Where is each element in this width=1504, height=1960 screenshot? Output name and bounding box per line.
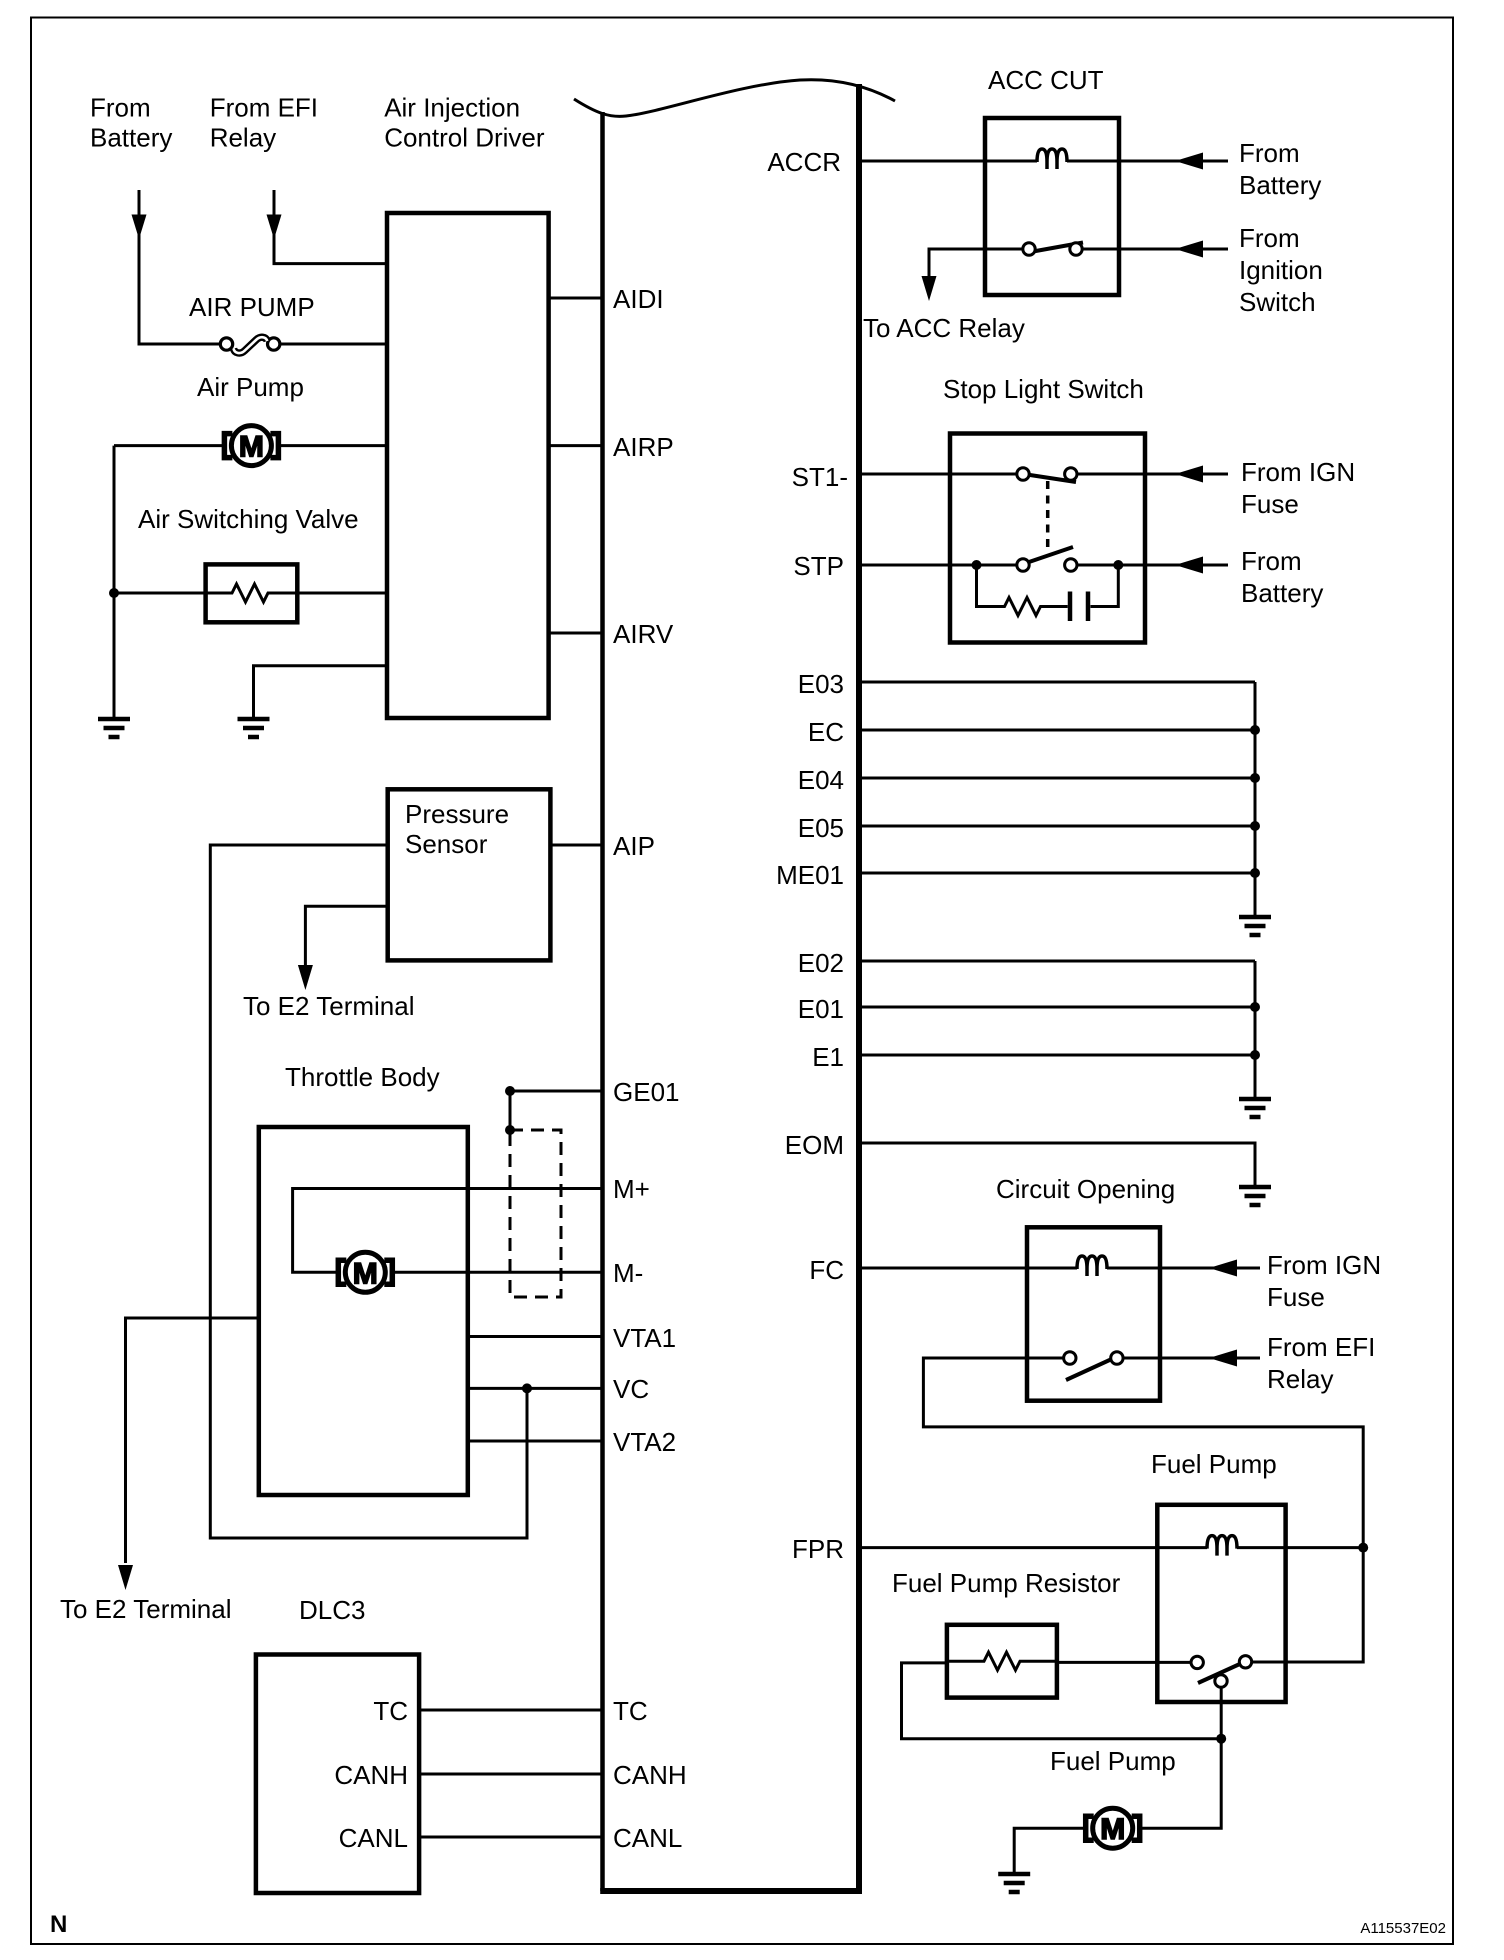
arrowhead From IGN Fuse xyxy=(1175,466,1203,483)
wire: VTA2 stub xyxy=(468,1440,603,1443)
svg-text:M: M xyxy=(239,431,264,464)
ground (air pump circuit) xyxy=(98,719,130,737)
wire: E03 xyxy=(861,681,1255,684)
ground (E03 bus) xyxy=(1239,917,1271,935)
svg-text:M: M xyxy=(1100,1813,1125,1846)
arrowhead To ACC Relay xyxy=(922,276,937,301)
junction: GE01 shield tap xyxy=(505,1086,515,1096)
wire: AIRP stub xyxy=(549,444,603,447)
wire: CANL link xyxy=(419,1836,602,1839)
wire: valve row right to driver box xyxy=(297,592,387,595)
junction: shield corner xyxy=(505,1125,515,1135)
svg-text:AIDI: AIDI xyxy=(613,284,664,314)
wire: circuit opening output loop to fuel pump relay xyxy=(923,1358,1363,1548)
svg-text:AIRV: AIRV xyxy=(613,619,674,649)
svg-text:FC: FC xyxy=(809,1255,844,1285)
svg-text:From: From xyxy=(1241,546,1302,576)
svg-text:M+: M+ xyxy=(613,1174,650,1204)
svg-text:CANL: CANL xyxy=(613,1823,682,1853)
relay coil (Fuel Pump) xyxy=(1207,1536,1237,1556)
wire: AIP stub xyxy=(550,844,602,847)
arrowhead to E2 terminal (upper) xyxy=(298,965,313,990)
svg-text:From IGN: From IGN xyxy=(1267,1250,1381,1280)
wire: M- lead xyxy=(392,1271,602,1274)
svg-text:CANL: CANL xyxy=(339,1823,408,1853)
wire: pressure sensor to E2 terminal xyxy=(305,906,387,966)
junction: fuel pump feed xyxy=(1216,1734,1226,1744)
svg-text:Fuel Pump Resistor: Fuel Pump Resistor xyxy=(892,1568,1121,1598)
wire: throttle body to E2 terminal xyxy=(126,1318,259,1563)
svg-text:Sensor: Sensor xyxy=(405,829,488,859)
svg-text:To E2 Terminal: To E2 Terminal xyxy=(60,1594,232,1624)
svg-text:Pressure: Pressure xyxy=(405,799,509,829)
resistor element (fuel pump resistor) xyxy=(947,1652,1057,1670)
junction: E01 xyxy=(1250,1002,1260,1012)
svg-text:E05: E05 xyxy=(798,813,844,843)
junction: ME01 xyxy=(1250,868,1260,878)
wire: E01 xyxy=(861,1006,1255,1009)
wire: common contact down to junction xyxy=(1220,1687,1223,1739)
relay contact (ACC CUT switch) xyxy=(985,243,1228,256)
svg-text:STP: STP xyxy=(793,551,844,581)
svg-text:To ACC Relay: To ACC Relay xyxy=(863,313,1025,343)
arrowhead From IGN Fuse (circuit opening) xyxy=(1209,1260,1237,1277)
svg-text:From IGN: From IGN xyxy=(1241,457,1355,487)
wire: ACCR to relay coil and From Battery xyxy=(861,160,1037,163)
wire: FC to coil and From IGN Fuse xyxy=(861,1267,1077,1270)
svg-text:TC: TC xyxy=(613,1696,648,1726)
junction: valve branch xyxy=(109,588,119,598)
wire: ground bus (E02-E1) xyxy=(1254,961,1257,1097)
junction: E05 xyxy=(1250,821,1260,831)
resistor element inside valve xyxy=(206,584,298,602)
svg-text:Battery: Battery xyxy=(1239,170,1321,200)
svg-text:VC: VC xyxy=(613,1374,649,1404)
ECU bottom edge xyxy=(600,1888,862,1894)
svg-text:Air Switching Valve: Air Switching Valve xyxy=(138,504,359,534)
relay box: Fuel Pump xyxy=(1157,1505,1285,1702)
svg-text:E01: E01 xyxy=(798,994,844,1024)
svg-text:ACCR: ACCR xyxy=(767,147,841,177)
wire: E02 xyxy=(861,960,1255,963)
svg-text:Circuit Opening: Circuit Opening xyxy=(996,1174,1175,1204)
wire: resistor bypass loop xyxy=(902,1663,1222,1739)
wire: VC stub xyxy=(468,1387,603,1390)
junction: EC xyxy=(1250,725,1260,735)
ground (driver box) xyxy=(238,719,270,737)
junction: VC tap xyxy=(522,1383,532,1393)
wire: RC branch right side up xyxy=(1091,565,1119,607)
wire: AIDI stub xyxy=(549,297,603,300)
svg-text:E03: E03 xyxy=(798,669,844,699)
svg-text:Fuel Pump: Fuel Pump xyxy=(1050,1746,1176,1776)
wire: FPR to coil xyxy=(861,1546,1207,1549)
svg-text:E1: E1 xyxy=(812,1042,844,1072)
relay box: ACC CUT xyxy=(985,118,1119,295)
svg-text:Stop Light Switch: Stop Light Switch xyxy=(943,374,1144,404)
ECU right boundary line xyxy=(856,84,862,1891)
wire: fuse to driver box xyxy=(281,343,388,346)
wire: ground bus (E03-ME01) xyxy=(1254,682,1257,915)
svg-text:Fuse: Fuse xyxy=(1267,1282,1325,1312)
relay coil (Circuit Opening) xyxy=(1077,1256,1107,1276)
svg-text:VTA2: VTA2 xyxy=(613,1427,676,1457)
wire: motor to ground xyxy=(1014,1828,1085,1872)
arrowhead From EFI Relay (circuit opening) xyxy=(1209,1350,1237,1367)
svg-text:CANH: CANH xyxy=(613,1760,687,1790)
ground (E02 bus) xyxy=(1239,1099,1271,1117)
arrowhead From Battery (stop light) xyxy=(1175,557,1203,574)
shield (dashed) around M+/M- wires xyxy=(510,1130,561,1297)
svg-text:VTA1: VTA1 xyxy=(613,1323,676,1353)
arrowhead on from-battery wire xyxy=(132,215,147,240)
box: Air Injection Control Driver xyxy=(387,213,549,718)
svg-text:From EFI: From EFI xyxy=(1267,1332,1375,1362)
svg-text:Air Pump: Air Pump xyxy=(197,372,304,402)
svg-text:Battery: Battery xyxy=(90,123,172,153)
ECU page-break squiggle (top) xyxy=(574,80,895,117)
resistor (stop light switch) xyxy=(977,598,1068,616)
wire: ME01 xyxy=(861,872,1255,875)
box: Throttle Body xyxy=(259,1127,468,1495)
wire: CANH link xyxy=(419,1773,602,1776)
svg-text:Air Injection: Air Injection xyxy=(384,93,520,123)
svg-text:EC: EC xyxy=(808,717,844,747)
ground (EOM) xyxy=(1239,1187,1271,1205)
relay coil (ACC CUT) xyxy=(1037,149,1067,169)
svg-text:CANH: CANH xyxy=(334,1760,408,1790)
svg-text:E02: E02 xyxy=(798,948,844,978)
wire: left drop from motor row to ground xyxy=(113,446,116,717)
svg-text:Relay: Relay xyxy=(1267,1364,1333,1394)
wire: GE01 down to shield xyxy=(509,1091,512,1130)
wire: EC xyxy=(861,729,1255,732)
svg-text:Relay: Relay xyxy=(210,123,276,153)
svg-text:ACC CUT: ACC CUT xyxy=(988,65,1104,95)
svg-text:N: N xyxy=(50,1911,67,1938)
arrowhead to E2 terminal (lower) xyxy=(118,1565,133,1590)
wire: EOM to ground xyxy=(861,1143,1255,1185)
wire: ST1- row xyxy=(861,473,1016,476)
svg-text:GE01: GE01 xyxy=(613,1077,680,1107)
svg-text:TC: TC xyxy=(373,1696,408,1726)
wire: from-EFI-relay feed into driver box xyxy=(274,190,387,264)
arrowhead From Battery xyxy=(1175,153,1203,170)
wire: air pump motor row xyxy=(114,444,226,447)
junction: E1 xyxy=(1250,1050,1260,1060)
svg-text:From EFI: From EFI xyxy=(210,93,318,123)
switch contact STP (lower) xyxy=(1017,547,1077,571)
relay box: Circuit Opening xyxy=(1027,1227,1160,1400)
svg-text:Ignition: Ignition xyxy=(1239,255,1323,285)
svg-text:Fuel Pump: Fuel Pump xyxy=(1151,1449,1277,1479)
svg-text:DLC3: DLC3 xyxy=(299,1595,365,1625)
svg-text:To E2 Terminal: To E2 Terminal xyxy=(243,991,415,1021)
svg-text:Control Driver: Control Driver xyxy=(384,123,545,153)
svg-text:From: From xyxy=(1239,223,1300,253)
junction: STP RC left xyxy=(972,560,982,570)
wire: down to fuel pump relay contact xyxy=(1252,1548,1364,1662)
svg-text:Fuse: Fuse xyxy=(1241,489,1299,519)
capacitor (stop light switch) xyxy=(1070,592,1088,622)
wire: valve row left xyxy=(114,592,206,595)
motor: throttle motor (M) xyxy=(338,1252,392,1292)
svg-text:Throttle Body: Throttle Body xyxy=(285,1062,440,1092)
svg-text:M: M xyxy=(353,1257,378,1290)
wire: to ACC relay xyxy=(929,249,985,276)
wire: STP row xyxy=(861,564,1016,567)
switch contact ST1 (upper) xyxy=(1017,468,1077,482)
svg-text:ST1-: ST1- xyxy=(792,462,848,492)
wire: GE01 stub xyxy=(510,1090,603,1093)
wire: from-battery feed down to AIR PUMP fuse xyxy=(139,190,220,344)
svg-text:From: From xyxy=(90,93,151,123)
box: Stop Light Switch xyxy=(950,434,1145,643)
arrowhead From Ignition Switch xyxy=(1175,241,1203,258)
svg-text:E04: E04 xyxy=(798,765,844,795)
box: DLC3 connector xyxy=(256,1655,419,1894)
svg-text:M-: M- xyxy=(613,1258,643,1288)
motor: Air Pump (M) xyxy=(224,426,278,466)
wire: E05 xyxy=(861,825,1255,828)
valve box (Air Switching Valve) xyxy=(206,564,298,622)
fuse AIR PUMP xyxy=(220,337,280,353)
ground (fuel pump motor) xyxy=(998,1874,1030,1892)
svg-text:AIRP: AIRP xyxy=(613,432,674,462)
junction: E04 xyxy=(1250,773,1260,783)
wire: M+ lead xyxy=(293,1189,603,1273)
wire: E1 xyxy=(861,1054,1255,1057)
relay contact (Circuit Opening switch) xyxy=(1027,1352,1260,1380)
motor: Fuel Pump (M) xyxy=(1086,1808,1140,1848)
wire: driver box ground lead xyxy=(254,666,388,717)
ganged-switch dashed link xyxy=(1046,481,1050,552)
svg-text:EOM: EOM xyxy=(785,1130,844,1160)
wire: VTA1 stub xyxy=(468,1335,603,1338)
svg-text:FPR: FPR xyxy=(792,1534,844,1564)
wire: TC link xyxy=(419,1709,602,1712)
arrowhead on from-EFI-relay wire xyxy=(267,215,282,240)
wire: junction down to motor xyxy=(1140,1739,1221,1829)
relay contact (Fuel Pump changeover switch) xyxy=(1057,1656,1252,1688)
junction: FPR / contact feed xyxy=(1358,1543,1368,1553)
wire: E04 xyxy=(861,777,1255,780)
junction: STP RC right xyxy=(1113,560,1123,570)
svg-text:AIR PUMP: AIR PUMP xyxy=(189,292,315,322)
svg-text:Switch: Switch xyxy=(1239,287,1316,317)
svg-text:Battery: Battery xyxy=(1241,578,1323,608)
svg-text:A115537E02: A115537E02 xyxy=(1360,1920,1446,1937)
wire: pressure sensor left lead down and around to VC xyxy=(210,845,527,1538)
ECU left boundary line xyxy=(600,112,605,1891)
svg-text:From: From xyxy=(1239,138,1300,168)
wire: RC bypass branch xyxy=(977,565,985,607)
wire: AIRV stub xyxy=(549,632,603,635)
svg-text:AIP: AIP xyxy=(613,831,655,861)
box: Pressure Sensor xyxy=(388,789,551,960)
box: Fuel Pump Resistor xyxy=(947,1625,1057,1698)
svg-text:ME01: ME01 xyxy=(776,860,844,890)
